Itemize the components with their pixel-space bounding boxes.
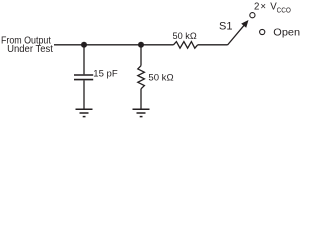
ground (under capacitor) (76, 109, 93, 116)
svg-text:Under Test: Under Test (7, 44, 53, 55)
svg-text:S1: S1 (219, 20, 232, 32)
wire: resistor R1 to ground (140, 89, 142, 109)
contact terminal: Open (260, 29, 265, 34)
node label: From Output Under Test (1, 36, 53, 56)
junction node A (81, 42, 87, 48)
svg-text:50 kΩ: 50 kΩ (173, 31, 197, 42)
wire: first junction to second junction (84, 44, 141, 46)
wire: input to first junction (54, 44, 84, 46)
wire: junction B down to resistor R1 (140, 45, 142, 66)
svg-text:50 kΩ: 50 kΩ (148, 72, 173, 83)
junction node B (138, 42, 144, 48)
switch S1 arrowhead (241, 20, 248, 28)
resistor R1 50 kOhm (vertical) (138, 66, 145, 89)
wire: junction A down to capacitor (83, 45, 85, 75)
wire: horizontal resistor to switch pivot (198, 44, 228, 46)
resistor R2 50 kOhm (horizontal) (174, 42, 198, 49)
svg-text:Open: Open (273, 26, 300, 38)
svg-text:15 pF: 15 pF (93, 68, 118, 79)
ground (under resistor R1) (133, 109, 150, 116)
switch S1 arm (228, 25, 245, 45)
wire: capacitor to ground (83, 80, 85, 109)
contact terminal: 2 x VCCO (250, 13, 255, 18)
wire: second junction to horizontal resistor (141, 44, 174, 46)
capacitor C1 15 pF (74, 75, 93, 80)
